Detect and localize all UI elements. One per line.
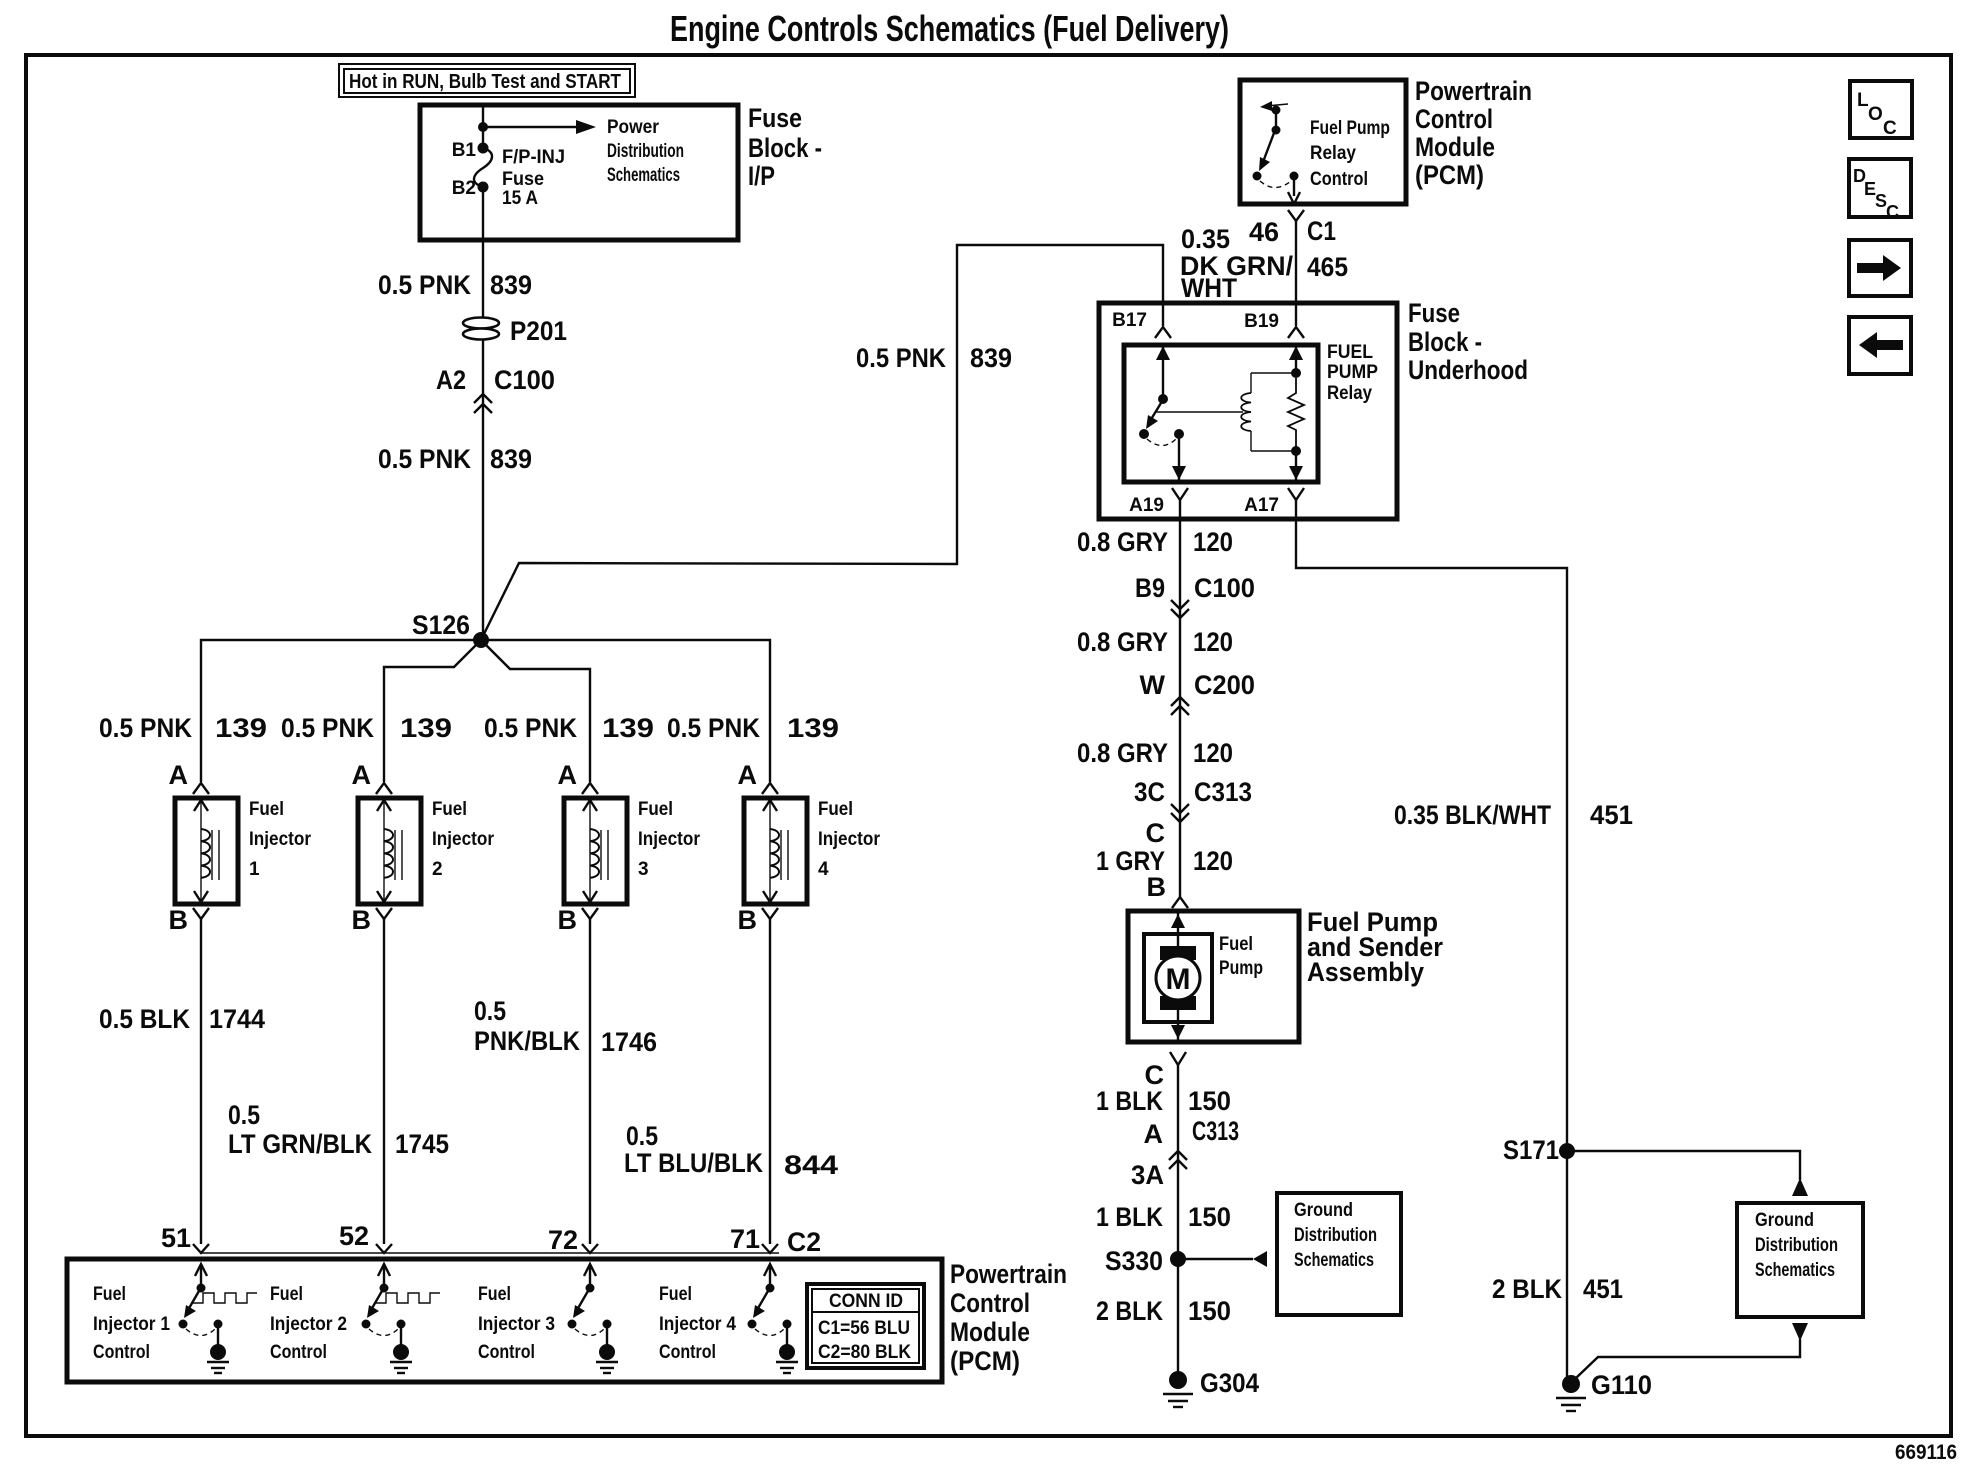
- PCM label (bottom right of box): [950, 1259, 1067, 1376]
- svg-text:150: 150: [1188, 1202, 1231, 1232]
- wire: bus drop inside fuse block: [482, 105, 484, 148]
- svg-text:Powertrain: Powertrain: [1415, 76, 1532, 106]
- pin B17: [1112, 310, 1171, 338]
- FUEL PUMP Relay label: [1327, 342, 1378, 404]
- ground distribution schematics box (left): [1277, 1193, 1401, 1315]
- svg-text:Schematics: Schematics: [607, 165, 680, 186]
- svg-text:1: 1: [249, 859, 260, 880]
- fuel injector 4: [738, 760, 881, 935]
- svg-text:Block -: Block -: [1408, 327, 1482, 357]
- wire below P201: [482, 339, 484, 640]
- svg-text:Fuse: Fuse: [1408, 298, 1460, 328]
- svg-text:O: O: [1868, 104, 1883, 125]
- svg-text:Distribution: Distribution: [1294, 1225, 1377, 1246]
- svg-text:B: B: [738, 905, 758, 935]
- svg-text:I/P: I/P: [748, 161, 775, 191]
- svg-text:Fuel: Fuel: [638, 799, 673, 820]
- svg-text:139: 139: [602, 713, 654, 743]
- svg-text:4: 4: [818, 859, 829, 880]
- svg-text:Fuse: Fuse: [748, 103, 802, 133]
- relay coil: [1155, 373, 1296, 451]
- svg-text:LT GRN/BLK: LT GRN/BLK: [228, 1129, 372, 1159]
- svg-text:Ground: Ground: [1294, 1200, 1353, 1221]
- svg-text:B: B: [558, 905, 578, 935]
- svg-text:0.5: 0.5: [626, 1121, 658, 1151]
- svg-text:B2: B2: [452, 178, 476, 199]
- svg-text:G110: G110: [1591, 1370, 1652, 1400]
- wire: branch to injector 3: [481, 640, 590, 782]
- svg-text:S126: S126: [412, 610, 470, 640]
- svg-text:1 BLK: 1 BLK: [1096, 1086, 1163, 1116]
- svg-text:Ground: Ground: [1755, 1210, 1814, 1231]
- svg-text:B1: B1: [452, 140, 477, 161]
- relay switch: [1139, 345, 1186, 481]
- splice S126: [412, 610, 489, 648]
- svg-text:(PCM): (PCM): [950, 1346, 1020, 1376]
- svg-text:M: M: [1166, 963, 1191, 996]
- connector C1 pin 46: [1249, 210, 1336, 247]
- svg-text:PUMP: PUMP: [1327, 362, 1378, 383]
- svg-text:0.5 PNK: 0.5 PNK: [378, 270, 471, 300]
- svg-text:451: 451: [1583, 1274, 1623, 1304]
- svg-text:PNK/BLK: PNK/BLK: [474, 1026, 580, 1056]
- svg-text:Assembly: Assembly: [1307, 957, 1424, 987]
- pin B fuel pump: [1147, 872, 1189, 908]
- svg-text:0.5: 0.5: [474, 996, 506, 1026]
- svg-text:Schematics: Schematics: [1294, 1250, 1374, 1271]
- svg-text:Fuel: Fuel: [1219, 934, 1253, 955]
- svg-text:1745: 1745: [395, 1129, 449, 1159]
- PCM top label: [1415, 76, 1532, 190]
- wire: 0.35 DK GRN/WHT 465: [1295, 221, 1297, 326]
- svg-text:0.8 GRY: 0.8 GRY: [1077, 627, 1168, 657]
- fuse block I/P label: [748, 103, 822, 191]
- right arrow nav box: [1849, 240, 1911, 296]
- driver: fuel injector 1 control: [93, 1264, 257, 1373]
- fuel injector 2: [352, 760, 495, 935]
- svg-text:Control: Control: [93, 1342, 150, 1363]
- connector C313 pin A / 3A: [1131, 1116, 1239, 1190]
- svg-text:C: C: [1146, 818, 1166, 848]
- svg-text:Distribution: Distribution: [1755, 1235, 1838, 1256]
- svg-text:0.5: 0.5: [228, 1100, 260, 1130]
- PCM top box (fuel pump relay control): [1240, 80, 1406, 204]
- svg-text:Control: Control: [950, 1288, 1030, 1318]
- svg-text:Injector 3: Injector 3: [478, 1314, 555, 1335]
- node: junction to power distribution arrow: [478, 122, 488, 132]
- svg-text:0.5 PNK: 0.5 PNK: [99, 713, 192, 743]
- svg-text:3C: 3C: [1134, 777, 1165, 807]
- fuel injector 3: [558, 760, 701, 935]
- svg-text:P201: P201: [510, 316, 567, 346]
- svg-text:A: A: [352, 760, 372, 790]
- wire: branch to injector 4: [481, 640, 770, 782]
- svg-text:139: 139: [215, 713, 267, 743]
- svg-text:0.5 PNK: 0.5 PNK: [484, 713, 577, 743]
- svg-text:Control: Control: [478, 1342, 535, 1363]
- svg-text:120: 120: [1193, 627, 1233, 657]
- svg-text:A19: A19: [1129, 495, 1164, 516]
- wire: injector 2 to PCM pin 52, 0.5 LT GRN/BLK 1745: [383, 919, 385, 1244]
- svg-text:Relay: Relay: [1327, 383, 1372, 404]
- svg-text:B19: B19: [1244, 311, 1279, 332]
- svg-text:C313: C313: [1194, 777, 1252, 807]
- svg-text:C200: C200: [1194, 670, 1255, 700]
- svg-text:51: 51: [161, 1223, 191, 1253]
- svg-text:C1=56 BLU: C1=56 BLU: [818, 1318, 910, 1339]
- svg-text:0.5 PNK: 0.5 PNK: [281, 713, 374, 743]
- svg-text:Injector: Injector: [432, 829, 495, 850]
- svg-text:C2: C2: [787, 1227, 821, 1257]
- svg-text:(PCM): (PCM): [1415, 160, 1484, 190]
- svg-text:839: 839: [490, 270, 532, 300]
- driver: fuel injector 3 control: [478, 1264, 618, 1373]
- svg-text:Injector: Injector: [818, 829, 881, 850]
- svg-text:844: 844: [784, 1150, 838, 1180]
- svg-text:1746: 1746: [601, 1027, 657, 1057]
- svg-text:3: 3: [638, 859, 649, 880]
- connector C100 pin A2 (double chevron): [436, 365, 555, 413]
- svg-text:465: 465: [1307, 252, 1348, 282]
- svg-text:Control: Control: [1415, 104, 1493, 134]
- svg-text:Control: Control: [270, 1342, 327, 1363]
- wire: return from ground distribution box to G110: [1792, 1323, 1808, 1341]
- wire: injector 1 to PCM pin 51, 0.5 BLK 1744: [200, 919, 202, 1244]
- svg-text:0.8 GRY: 0.8 GRY: [1077, 738, 1168, 768]
- fuse F/P-INJ 15A: [452, 140, 565, 209]
- svg-text:A2: A2: [436, 365, 466, 395]
- svg-text:0.35 BLK/WHT: 0.35 BLK/WHT: [1394, 800, 1551, 830]
- wire: S126 feed up to underhood fuse block (0.5 PNK 839): [481, 245, 1163, 640]
- splice S330: [1105, 1246, 1186, 1276]
- fuel pump and sender assembly label: [1307, 907, 1443, 987]
- svg-text:Control: Control: [1310, 169, 1368, 190]
- svg-text:B9: B9: [1135, 573, 1165, 603]
- pin A17: [1244, 488, 1304, 516]
- svg-text:A: A: [169, 760, 189, 790]
- svg-text:Fuel: Fuel: [818, 799, 853, 820]
- ground distribution schematics box (right): [1737, 1203, 1863, 1317]
- svg-text:Injector: Injector: [249, 829, 312, 850]
- svg-text:139: 139: [400, 713, 452, 743]
- connector C313 pin 3C: [1134, 777, 1252, 822]
- svg-text:Engine Controls Schematics (Fu: Engine Controls Schematics (Fuel Deliver…: [670, 8, 1229, 49]
- svg-text:2 BLK: 2 BLK: [1492, 1274, 1562, 1304]
- svg-text:G304: G304: [1200, 1368, 1259, 1398]
- wire: fuel pump ground path: [1177, 1065, 1179, 1380]
- svg-text:Hot in RUN, Bulb Test and STAR: Hot in RUN, Bulb Test and START: [349, 71, 621, 93]
- svg-text:150: 150: [1188, 1296, 1231, 1326]
- svg-text:C100: C100: [494, 365, 555, 395]
- svg-text:Fuel: Fuel: [432, 799, 467, 820]
- svg-text:B17: B17: [1112, 310, 1147, 331]
- wire: branch to injector 2: [384, 640, 481, 782]
- svg-text:150: 150: [1188, 1086, 1231, 1116]
- svg-text:B: B: [169, 905, 189, 935]
- svg-text:839: 839: [970, 343, 1012, 373]
- svg-text:Injector 4: Injector 4: [659, 1314, 736, 1335]
- ground G304: [1163, 1368, 1259, 1407]
- svg-text:Fuse: Fuse: [502, 169, 544, 190]
- svg-text:72: 72: [548, 1225, 578, 1255]
- hot-in-run label box: [339, 64, 635, 97]
- splice S171: [1503, 1135, 1575, 1165]
- svg-text:0.35: 0.35: [1181, 224, 1230, 254]
- svg-text:Fuel: Fuel: [93, 1284, 126, 1305]
- svg-text:Schematics: Schematics: [1755, 1260, 1835, 1281]
- svg-text:F/P-INJ: F/P-INJ: [502, 147, 565, 168]
- wire: 0.5 PNK 839 from fuse block to P201: [482, 187, 484, 318]
- svg-text:Fuel: Fuel: [659, 1284, 692, 1305]
- fuel injector 1: [169, 760, 312, 935]
- svg-text:FUEL: FUEL: [1327, 342, 1373, 363]
- svg-text:Injector 1: Injector 1: [93, 1314, 170, 1335]
- svg-text:Fuel: Fuel: [270, 1284, 303, 1305]
- pin C fuel pump: [1145, 1052, 1187, 1090]
- svg-text:0.5 PNK: 0.5 PNK: [856, 343, 946, 373]
- svg-text:C100: C100: [1194, 573, 1255, 603]
- PCM bottom box: [67, 1259, 942, 1382]
- wire: A17 to S171 to G110 (0.35 BLK/WHT 451): [1296, 500, 1567, 1380]
- LOC nav box: [1850, 81, 1912, 139]
- connector C200 pin W: [1140, 670, 1255, 715]
- connector C100 pin B9: [1135, 573, 1255, 618]
- fuse block underhood outer box: [1099, 303, 1397, 519]
- svg-text:Control: Control: [659, 1342, 716, 1363]
- wire: injector 3 to PCM pin 72, 0.5 PNK/BLK 1746: [589, 919, 591, 1244]
- ground G110: [1556, 1370, 1652, 1411]
- svg-text:120: 120: [1193, 846, 1233, 876]
- pin B19: [1244, 311, 1304, 338]
- wire: injector 4 to PCM pin 71, 0.5 LT BLU/BLK 844: [769, 919, 771, 1244]
- fuel pump and sender assembly box: [1128, 911, 1299, 1042]
- fuse block I/P box: [420, 105, 738, 240]
- wire: S171 branch to ground distribution: [1567, 1151, 1800, 1180]
- wire: branch to injector 1: [201, 640, 481, 782]
- svg-text:52: 52: [339, 1221, 369, 1251]
- svg-text:3A: 3A: [1131, 1160, 1164, 1190]
- svg-text:Block -: Block -: [748, 133, 822, 163]
- svg-text:Underhood: Underhood: [1408, 355, 1528, 385]
- svg-text:A: A: [1144, 1119, 1164, 1149]
- svg-text:0.8 GRY: 0.8 GRY: [1077, 527, 1168, 557]
- svg-text:1 BLK: 1 BLK: [1096, 1202, 1163, 1232]
- svg-text:Fuel Pump: Fuel Pump: [1310, 118, 1390, 139]
- svg-text:Power: Power: [607, 117, 660, 138]
- svg-text:Pump: Pump: [1219, 958, 1263, 979]
- svg-text:139: 139: [787, 713, 839, 743]
- svg-text:A: A: [738, 760, 758, 790]
- svg-text:Powertrain: Powertrain: [950, 1259, 1067, 1289]
- svg-text:Module: Module: [950, 1317, 1030, 1347]
- svg-text:C: C: [1886, 202, 1899, 222]
- svg-text:839: 839: [490, 444, 532, 474]
- svg-text:71: 71: [730, 1224, 760, 1254]
- svg-text:46: 46: [1249, 217, 1279, 247]
- svg-text:WHT: WHT: [1181, 273, 1237, 303]
- driver: fuel injector 4 control: [659, 1264, 798, 1373]
- svg-text:1744: 1744: [209, 1004, 265, 1034]
- PCM connector C2 pins 51 52 72 71: [161, 1221, 821, 1257]
- svg-text:C313: C313: [1192, 1116, 1239, 1146]
- svg-text:120: 120: [1193, 738, 1233, 768]
- svg-text:Distribution: Distribution: [607, 141, 684, 162]
- fuel pump motor: [1144, 911, 1263, 1042]
- wire: S330 branch to ground distribution: [1178, 1258, 1253, 1260]
- svg-text:0.5 BLK: 0.5 BLK: [99, 1004, 190, 1034]
- svg-text:Fuel: Fuel: [249, 799, 284, 820]
- svg-text:451: 451: [1590, 800, 1633, 830]
- svg-text:S171: S171: [1503, 1135, 1559, 1165]
- svg-text:C: C: [1883, 118, 1897, 139]
- CONN ID table: [807, 1284, 924, 1368]
- svg-text:Module: Module: [1415, 132, 1495, 162]
- fuse block underhood label: [1408, 298, 1528, 385]
- svg-text:A17: A17: [1244, 495, 1279, 516]
- svg-text:W: W: [1140, 670, 1166, 700]
- driver: fuel injector 2 control: [270, 1264, 440, 1373]
- svg-text:0.5 PNK: 0.5 PNK: [667, 713, 760, 743]
- grommet P201: [463, 316, 567, 346]
- wire: arrow to power distribution schematics: [483, 126, 578, 128]
- relay resistor: [1288, 345, 1304, 481]
- svg-text:Relay: Relay: [1310, 143, 1356, 164]
- svg-text:CONN ID: CONN ID: [829, 1291, 903, 1312]
- svg-text:Injector 2: Injector 2: [270, 1314, 347, 1335]
- svg-text:S330: S330: [1105, 1246, 1163, 1276]
- svg-text:A: A: [558, 760, 578, 790]
- svg-text:B: B: [352, 905, 372, 935]
- svg-text:C2=80 BLK: C2=80 BLK: [818, 1342, 911, 1363]
- svg-text:Fuel: Fuel: [478, 1284, 511, 1305]
- driver: fuel pump relay control: [1253, 101, 1391, 204]
- svg-text:B: B: [1147, 872, 1167, 902]
- svg-text:15 A: 15 A: [502, 188, 538, 209]
- svg-text:C1: C1: [1307, 216, 1336, 246]
- DESC nav box: [1849, 159, 1911, 222]
- svg-text:669116: 669116: [1895, 1441, 1957, 1464]
- left arrow nav box: [1849, 317, 1911, 374]
- svg-text:2: 2: [432, 859, 443, 880]
- wire labels 0.5 PNK 139 (x4): [99, 713, 839, 743]
- svg-text:Injector: Injector: [638, 829, 701, 850]
- svg-text:LT BLU/BLK: LT BLU/BLK: [624, 1148, 763, 1178]
- wire: A19 down to fuel pump: [1179, 500, 1181, 897]
- fuel pump relay inner box: [1124, 345, 1318, 482]
- pin A19: [1129, 488, 1188, 516]
- svg-text:120: 120: [1193, 527, 1233, 557]
- svg-text:0.5 PNK: 0.5 PNK: [378, 444, 471, 474]
- svg-text:2 BLK: 2 BLK: [1096, 1296, 1163, 1326]
